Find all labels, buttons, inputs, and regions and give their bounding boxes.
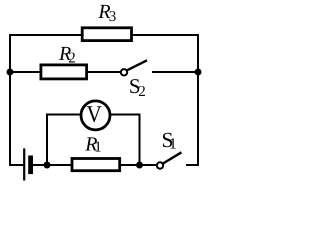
wire R2 branch left segment <box>9 71 121 73</box>
wire bottom middle segment from battery to switch S1 <box>33 164 157 166</box>
wire left side of outer loop <box>9 34 11 166</box>
label R1 <box>84 133 101 155</box>
svg-text:1: 1 <box>169 136 177 153</box>
svg-text:2: 2 <box>138 84 146 100</box>
svg-text:V: V <box>86 102 102 128</box>
wire top side of outer loop <box>9 34 199 36</box>
label R2 <box>58 43 76 67</box>
label R3 <box>97 1 116 25</box>
label S2 <box>129 74 146 100</box>
switch S2 lever <box>127 60 147 70</box>
voltmeter circle <box>81 101 110 130</box>
label S1 <box>162 128 177 153</box>
resistor R1 box <box>72 159 120 171</box>
switch S1 lever <box>163 152 182 163</box>
wire voltmeter branch left (vertical riser and horizontal) <box>47 115 81 167</box>
node junction right of R2 branch <box>195 69 202 76</box>
wire R2 branch right segment <box>152 71 199 73</box>
battery long thin plate <box>23 148 25 180</box>
svg-text:2: 2 <box>68 51 76 67</box>
wire right side of outer loop <box>197 34 199 166</box>
node junction left of R2 <box>7 69 14 76</box>
node junction at battery output <box>44 162 51 169</box>
wire bottom right segment after switch S1 <box>186 164 199 166</box>
wire voltmeter branch right (horizontal and vertical riser) <box>110 115 140 167</box>
svg-text:1: 1 <box>94 140 102 156</box>
resistor R2 box <box>41 65 87 79</box>
switch S1 pivot circle <box>157 162 163 168</box>
resistor R3 box <box>82 28 131 41</box>
switch S2 pivot circle <box>121 69 127 75</box>
battery short thick plate <box>28 156 33 175</box>
svg-text:3: 3 <box>109 9 117 25</box>
node junction right of R1 <box>136 162 143 169</box>
wire bottom left segment to battery <box>9 164 24 166</box>
